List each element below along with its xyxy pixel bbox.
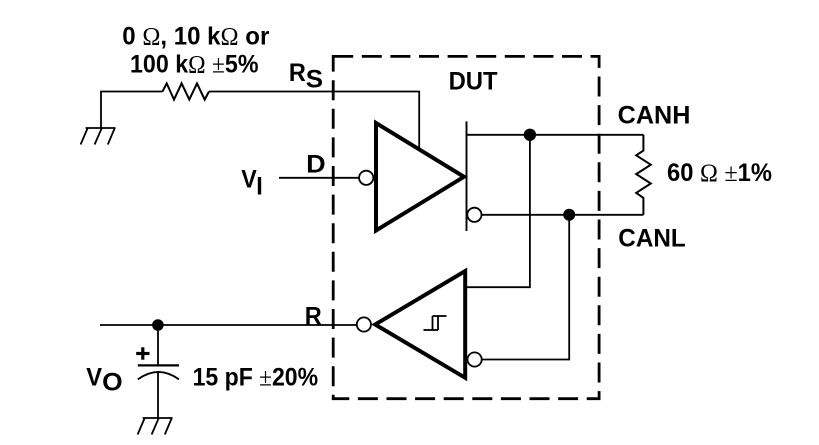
wire VI to D input bubble xyxy=(279,177,359,179)
wire RS drop already drawn; driver output bar xyxy=(466,121,468,231)
node VO junction dot xyxy=(152,319,164,331)
wire down to capacitor xyxy=(157,325,159,365)
label VI (input voltage) xyxy=(241,166,263,201)
svg-text:15 pF ±20%: 15 pF ±20% xyxy=(193,364,319,392)
wire ground to resistor xyxy=(101,92,163,129)
receiver input bubble (R pin) xyxy=(357,317,371,331)
svg-text:O: O xyxy=(102,369,123,397)
driver op-amp U1 (CAN driver triangle) xyxy=(376,123,464,231)
wire capacitor to ground xyxy=(157,372,159,418)
receiver lower output bubble xyxy=(468,352,482,366)
wire R pin rail to VO xyxy=(100,324,357,326)
node CANL junction dot xyxy=(563,209,575,221)
svg-text:100 kΩ ±5%: 100 kΩ ±5% xyxy=(130,51,259,79)
svg-text:I: I xyxy=(256,173,263,201)
resistor 60 Ω termination (vertical) with corner wires xyxy=(636,135,651,215)
svg-text:R: R xyxy=(289,59,306,87)
svg-text:DUT: DUT xyxy=(449,68,498,96)
receiver op-amp U2 (triangle pointing left) xyxy=(375,271,465,378)
svg-text:D: D xyxy=(306,151,326,179)
svg-text:S: S xyxy=(306,65,323,93)
wire CANL tap down to receiver low output xyxy=(482,215,569,360)
wire CANH tap down to receiver top input xyxy=(466,135,530,287)
node CANH junction dot xyxy=(524,129,536,141)
wire resistor to RS pin into DUT, down to driver xyxy=(209,92,419,150)
hysteresis symbol inside receiver xyxy=(424,316,447,330)
svg-text:V: V xyxy=(241,166,257,194)
svg-text:V: V xyxy=(86,363,102,391)
plus polarity mark xyxy=(136,347,149,359)
wire CANL rail (driver low out to CANL) xyxy=(482,214,644,216)
resistor RS (series source resistor) xyxy=(163,83,210,99)
driver lower output bubble xyxy=(467,208,481,222)
DUT dashed box xyxy=(333,56,599,398)
label 0 Ω, 10 kΩ or / 100 kΩ ±5% (value of source resistor) xyxy=(122,22,269,78)
ground (bottom chassis ground) xyxy=(138,418,173,435)
svg-text:0 Ω, 10 kΩ or: 0 Ω, 10 kΩ or xyxy=(122,22,269,50)
svg-text:CANL: CANL xyxy=(618,224,685,252)
svg-text:R: R xyxy=(305,302,322,330)
ground (top-left chassis ground) xyxy=(81,128,116,145)
label VO (output voltage) xyxy=(86,363,122,396)
svg-text:CANH: CANH xyxy=(618,102,691,130)
svg-text:60 Ω ±1%: 60 Ω ±1% xyxy=(667,159,772,187)
wire CANH rail (driver out to CANH) xyxy=(467,134,644,136)
driver input inversion bubble xyxy=(359,171,373,185)
capacitor C 15 pF (polarized) xyxy=(138,365,179,379)
pin label RS xyxy=(289,59,323,93)
